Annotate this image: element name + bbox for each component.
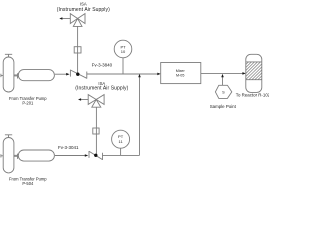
svg-text:Fv-3-3041: Fv-3-3041 <box>58 145 79 150</box>
wire PT-11 tap <box>120 148 122 155</box>
svg-text:To Reactor R-102: To Reactor R-102 <box>236 92 269 97</box>
regulator box B1 <box>74 47 81 53</box>
arrow left on V2 vent <box>78 98 81 100</box>
label From Transfer Pump P-504 <box>9 176 47 186</box>
svg-text:P-201: P-201 <box>22 101 34 106</box>
vent tee on T2 <box>5 135 12 138</box>
3-way valve V1 <box>70 14 85 27</box>
wire valve V1 stem down <box>77 26 79 73</box>
label ISA (Instrument Air Supply) lower <box>75 81 128 92</box>
mixer M-05 box <box>161 63 201 84</box>
butterfly valve FV1 Fv-3-3840 <box>70 70 86 79</box>
wire pipe FV1 to mixer <box>87 73 158 75</box>
svg-text:S: S <box>222 90 225 94</box>
wire pipe mixer to reactor <box>201 72 244 74</box>
vessel H1 horizontal <box>18 70 54 81</box>
tank T1 vertical vessel <box>3 57 14 92</box>
regulator box B2 <box>93 128 99 134</box>
tank T2 vertical vessel <box>3 138 14 173</box>
dot FV2 <box>94 154 97 157</box>
svg-text:(Instrument Air Supply): (Instrument Air Supply) <box>57 7 110 13</box>
hatch in R-102 <box>246 62 262 80</box>
nozzle T1 to vessel H1 <box>14 73 18 78</box>
svg-text:11: 11 <box>119 139 124 144</box>
svg-text:M-05: M-05 <box>176 74 184 78</box>
wire riser from bottom line <box>139 76 141 155</box>
svg-text:ISA: ISA <box>80 2 87 7</box>
arrow flow into FV1 <box>66 73 69 76</box>
arrow sample tap up <box>221 74 224 77</box>
vent tee on T1 <box>5 54 12 57</box>
instrument PT-10 <box>114 40 132 58</box>
stub nozzle left of T1 <box>1 74 3 77</box>
arrow flow into FV2 <box>85 154 88 157</box>
butterfly valve FV2 Fv-3-3041 <box>89 151 103 160</box>
hexagon sample point S <box>215 85 231 98</box>
wire PT-10 tap <box>122 58 124 74</box>
vessel H2 horizontal <box>18 150 54 161</box>
wire pipe FV2 to riser <box>103 154 140 156</box>
svg-text:Mixer: Mixer <box>176 69 186 73</box>
arrow into mixer <box>157 73 160 76</box>
svg-text:P-504: P-504 <box>22 181 34 186</box>
wire vent line valve V2 <box>80 99 88 101</box>
dot FV1 <box>76 73 79 76</box>
stub nozzle left of T2 <box>1 154 3 157</box>
arrow left on V1 vent <box>59 17 62 19</box>
nozzle T2 to vessel H2 <box>14 154 18 159</box>
svg-text:Fv-3-3840: Fv-3-3840 <box>92 63 113 68</box>
wire pipe H1 to valve FV1 <box>55 73 67 75</box>
reactor vessel R-102 <box>246 54 262 92</box>
instrument PT-11 <box>112 130 130 148</box>
svg-text:Sample Point: Sample Point <box>210 104 237 109</box>
3-way valve V2 <box>88 95 104 108</box>
label ISA (Instrument Air Supply) top <box>57 2 110 14</box>
label From Transfer Pump P-201 <box>9 96 47 106</box>
wire vent line valve V1 <box>61 18 70 20</box>
svg-text:(Instrument Air Supply): (Instrument Air Supply) <box>75 86 128 92</box>
wire pipe H2 to valve FV2 <box>55 155 86 157</box>
wire valve V2 stem down <box>95 107 97 155</box>
arrow into reactor <box>242 72 245 75</box>
wire sample tap <box>222 76 224 85</box>
arrow riser up into top pipe <box>138 74 141 77</box>
svg-text:10: 10 <box>121 49 126 54</box>
